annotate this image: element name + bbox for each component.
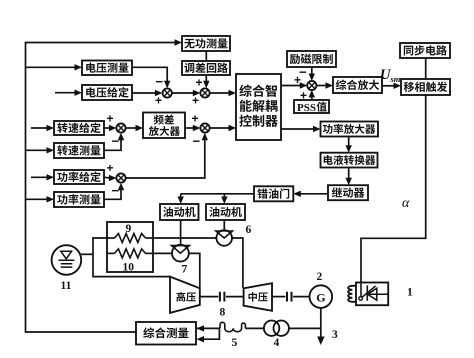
wire P1 output up to S2 bottom input	[126, 136, 205, 178]
wire: bus tap to 转速测量	[26, 149, 48, 151]
svg-text:+: +	[107, 161, 114, 175]
wire 功率测量 up to P1	[104, 186, 121, 199]
shaft coupling between IP and generator	[272, 296, 285, 298]
svg-text:sm: sm	[390, 74, 401, 84]
boiler drum 11	[52, 245, 82, 275]
wire 错油门 to both 油动机 servomotors	[181, 193, 254, 195]
wire 转速给定 to summing node S1	[104, 127, 110, 129]
block 转速给定 (speed reference)	[54, 121, 104, 135]
block 继动器 (relay)	[328, 185, 368, 200]
svg-text:8: 8	[220, 307, 226, 319]
wire 继动器 to 错油门	[300, 193, 329, 195]
wire 电液转换器 down to 继动器	[348, 168, 350, 183]
wire transformer 4 to generator lead junction	[289, 327, 321, 329]
svg-text:+: +	[107, 112, 114, 126]
svg-text:4: 4	[274, 337, 280, 349]
wire valve 7 to HP turbine inlet	[189, 253, 200, 288]
wire 调差回路 down to summing node V2	[205, 75, 207, 85]
block U1 综合智能解耦控制器 (integrated intelligent decoupling controller)	[236, 74, 281, 140]
wire 电压测量 to summing node V1	[132, 67, 167, 85]
wire V2 to controller U1	[210, 92, 229, 94]
generator G	[310, 285, 333, 308]
wire 频差放大器 to summing node S2	[185, 127, 194, 129]
wire 油动机 a down to valve 7	[180, 220, 182, 245]
field winding of exciter	[348, 286, 356, 302]
wire 综合放大 to 移相触发 with label	[382, 85, 395, 87]
block 综合测量 (integrated measurement)	[136, 322, 196, 345]
transformer 4 (PT, two overlapping circles)	[264, 321, 279, 336]
wire 无功测量 to 调差回路	[205, 51, 207, 61]
summing node V1	[163, 88, 172, 97]
wire: steam loop left vertical	[93, 238, 170, 277]
wire E1 to 综合放大	[316, 85, 326, 87]
svg-text:11: 11	[61, 280, 72, 292]
wire: measurement rail from transformer to 综合测量	[196, 327, 220, 329]
svg-text:−: −	[193, 134, 201, 149]
thyristor: gate lead from trigger line	[360, 283, 362, 297]
wire S1 to 频差放大器	[126, 127, 137, 129]
wire 功率给定 to summing node P1	[104, 176, 110, 179]
svg-text:−: −	[112, 183, 120, 198]
wire coil to transformer 4	[245, 327, 264, 329]
wire: bus tap to 电压测量	[26, 66, 76, 68]
wire: external stub into 转速给定	[31, 127, 48, 129]
current transformer coil 5	[220, 322, 245, 331]
block 电压给定 (voltage reference)	[82, 85, 132, 100]
block 转速测量 (speed measurement)	[54, 143, 104, 158]
HP turbine 高压	[170, 277, 200, 313]
IP turbine 中压	[244, 283, 272, 311]
svg-text:+: +	[192, 112, 199, 126]
svg-text:5: 5	[232, 337, 238, 349]
block 综合放大 (integrated amplifier)	[333, 77, 382, 93]
block 电压测量 (voltage measurement)	[82, 61, 132, 76]
block 调差回路 (droop circuit)	[182, 61, 230, 75]
svg-text:7: 7	[182, 264, 188, 276]
block 电液转换器 (electro-hydraulic converter)	[321, 153, 378, 168]
wire: feedback bus from 综合测量 output up left side and to 无功测量	[26, 43, 178, 333]
block 油动机 b (servomotor)	[206, 204, 245, 220]
wire controller lower output to 功率放大器	[281, 128, 314, 130]
svg-text:2: 2	[317, 271, 323, 283]
wire: arrow into 无功测量	[175, 39, 183, 45]
wire controller to E1	[281, 85, 301, 87]
shaft coupling 8	[200, 296, 219, 298]
summing node S1	[116, 123, 125, 132]
wire: external stub into 功率给定	[31, 176, 48, 178]
block 功率测量 (power measurement)	[54, 192, 104, 207]
thyristor rectifier bridge 1	[356, 283, 388, 306]
block PSS值 (PSS value)	[294, 100, 329, 113]
block 同步电路 (synchronizing circuit)	[400, 43, 450, 58]
svg-text:+: +	[196, 76, 203, 90]
wire 电压给定 to V1	[132, 92, 156, 94]
block 频差放大器 (frequency-difference amplifier)	[143, 113, 185, 139]
wire 励磁限制 down to summing node E1	[311, 67, 313, 78]
block 无功测量 (reactive power measurement)	[182, 36, 230, 51]
wire S2 to controller U1 lower input	[210, 127, 229, 129]
svg-text:−: −	[112, 134, 120, 149]
thyristor: cathode bar	[366, 285, 368, 300]
wire 同步电路 to 移相触发	[425, 58, 427, 79]
svg-text:3: 3	[332, 329, 338, 341]
wire: tap to second input of 综合测量	[203, 328, 220, 339]
wire generator down to grid arrow 3	[320, 308, 322, 338]
svg-text:10: 10	[123, 262, 135, 274]
thyristor: output line to box edge	[367, 293, 388, 295]
svg-text:6: 6	[246, 224, 252, 236]
wire V1 to V2	[172, 92, 194, 94]
wire valve 6 to IP turbine inlet	[232, 238, 243, 288]
wire: external stub into 电压给定	[55, 92, 76, 94]
block: superheater box containing 9 and 10	[107, 222, 153, 272]
valve 6 (IP control valve)	[216, 230, 232, 246]
resistor-like coil 10 (reheater)	[107, 252, 115, 254]
resistor-like coil 9 (superheater)	[107, 237, 115, 239]
summing node E1	[307, 81, 316, 90]
wire: crossover line zigzag9 row to valve 6	[153, 237, 216, 239]
wire: bus tap to 功率测量	[26, 198, 48, 200]
block 励磁限制 (excitation limiter)	[287, 51, 336, 67]
block 功率给定 (power reference)	[54, 170, 104, 184]
svg-text:G: G	[316, 291, 325, 305]
valve 7 (HP control valve)	[172, 245, 189, 262]
svg-text:+: +	[155, 94, 162, 108]
summing node V2	[200, 88, 209, 97]
wire 油动机 b down to valve 6	[223, 220, 225, 230]
thyristor: anode triangle	[368, 288, 377, 300]
wire PSS值 up to E1	[311, 93, 313, 100]
svg-text:1: 1	[407, 287, 413, 299]
summing node P1	[116, 173, 125, 182]
wire 移相触发 down to thyristor bridge 1	[361, 95, 426, 283]
block 移相触发 (phase-shift trigger)	[401, 79, 450, 95]
svg-text:PSS: PSS	[297, 102, 316, 114]
block 油动机 a (servomotor)	[160, 204, 199, 220]
wire 功率放大器 down to 电液转换器	[348, 137, 350, 150]
svg-text:−: −	[156, 74, 164, 89]
summing node S2	[200, 123, 209, 132]
wire boiler to loop	[81, 253, 93, 255]
wire zigzag10 to valve 7	[153, 252, 172, 254]
svg-text:+: +	[192, 94, 199, 108]
block 错油门 (pilot valve)	[254, 186, 293, 201]
block 功率放大器 (power amplifier)	[321, 122, 379, 137]
wire 转速测量 up to S1	[104, 136, 121, 150]
svg-text:α: α	[402, 196, 410, 211]
